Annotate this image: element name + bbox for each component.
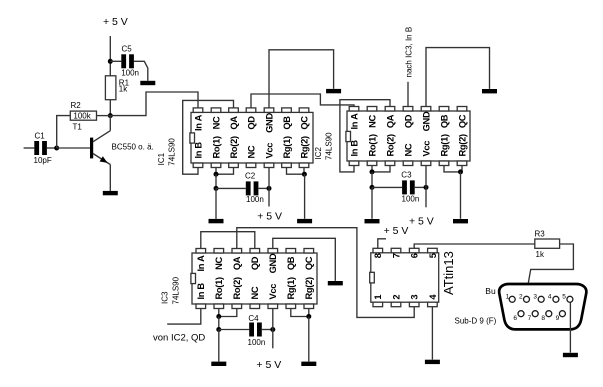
wire IC3 Ro junction down to C4 node bbox=[218, 317, 220, 330]
wire C5 right plate to ground bbox=[134, 61, 148, 80]
wire IC3 QA to ATtiny13 pin3 bbox=[237, 228, 414, 318]
node IC2 Rg junction bbox=[458, 169, 463, 174]
svg-text:2: 2 bbox=[391, 295, 401, 300]
svg-text:6: 6 bbox=[410, 253, 420, 258]
svg-text:+ 5 V: + 5 V bbox=[103, 16, 128, 28]
svg-text:In A: In A bbox=[193, 114, 203, 131]
wire IC1 QD to IC2 In A bbox=[251, 94, 354, 108]
node IC1 Ro junction bbox=[214, 172, 219, 177]
wire IC3 Rg junction to ground bbox=[308, 317, 310, 362]
svg-text:R2: R2 bbox=[71, 101, 82, 110]
IC1 top pins row bbox=[193, 108, 309, 113]
resistor R3 1k body bbox=[535, 239, 560, 248]
ground emitter T1 bbox=[103, 191, 118, 195]
svg-text:1k: 1k bbox=[119, 84, 128, 93]
svg-text:Rg(1): Rg(1) bbox=[439, 134, 449, 156]
svg-text:+ 5 V: + 5 V bbox=[384, 225, 409, 237]
ground Sub-D pin5 bbox=[563, 353, 578, 357]
svg-text:+ 5 V: + 5 V bbox=[409, 216, 434, 228]
wire collector diagonal up bbox=[109, 116, 111, 131]
capacitor C4 100n plates bbox=[249, 323, 262, 337]
svg-text:QB: QB bbox=[282, 116, 292, 130]
svg-text:NC: NC bbox=[214, 257, 224, 270]
svg-text:4: 4 bbox=[548, 293, 552, 300]
wire R2 right to collector node bbox=[97, 115, 111, 117]
svg-text:C1: C1 bbox=[35, 132, 46, 141]
node junction +5V / C5 bbox=[108, 59, 113, 64]
IC1 pin1 notch bbox=[190, 133, 195, 143]
svg-text:NC: NC bbox=[250, 286, 260, 299]
svg-text:In A: In A bbox=[349, 113, 359, 130]
op-amp IC3 74LS90 body bbox=[192, 253, 317, 304]
wire base node up to R2 bbox=[57, 116, 71, 148]
ATtiny13 bottom pin numbers 1 2 3 4 bbox=[373, 294, 438, 300]
svg-text:In B: In B bbox=[193, 142, 203, 159]
svg-text:9: 9 bbox=[556, 315, 560, 322]
svg-text:Bu: Bu bbox=[485, 286, 496, 296]
node base junction dot bbox=[54, 146, 59, 151]
wire base node to transistor base bbox=[57, 147, 91, 149]
svg-text:NC: NC bbox=[211, 116, 221, 129]
svg-text:100k: 100k bbox=[73, 112, 91, 121]
svg-text:Ro(1): Ro(1) bbox=[367, 134, 377, 156]
svg-text:QD: QD bbox=[403, 114, 413, 128]
node IC3 Rg junction bbox=[306, 314, 311, 319]
svg-text:+ 5 V: + 5 V bbox=[256, 359, 281, 371]
wire C3 right to Vcc node bbox=[415, 186, 426, 188]
svg-text:1: 1 bbox=[506, 293, 510, 300]
wire IC1 Rg(1) to Rg(2) bbox=[287, 168, 305, 175]
node IC1 Vcc junction bbox=[267, 186, 272, 191]
node IC3 Ro junction bbox=[216, 314, 221, 319]
svg-text:BC550 o. ä.: BC550 o. ä. bbox=[112, 143, 154, 152]
wire ATtiny13 pin8 to +5V bbox=[378, 239, 386, 249]
wire IC3 In B stub von IC2 bbox=[167, 309, 201, 325]
svg-text:Rg(1): Rg(1) bbox=[286, 277, 296, 299]
wire IC3 Ro(1) down bbox=[218, 309, 220, 317]
IC2 bottom pin labels bbox=[349, 134, 467, 156]
IC3 top pins row bbox=[196, 249, 314, 254]
svg-text:ATtin13: ATtin13 bbox=[441, 251, 456, 295]
ground IC1 GND bbox=[326, 89, 341, 93]
IC3 bottom pin labels bbox=[196, 277, 314, 299]
wire IC1 Ro(1) down bbox=[215, 168, 217, 175]
node IC2 C3 left junction bbox=[370, 185, 375, 190]
wire IC1 GND to ground bbox=[269, 50, 334, 108]
svg-text:QC: QC bbox=[299, 116, 309, 130]
svg-text:QB: QB bbox=[286, 256, 296, 270]
wire IC2 Rg(1) to Rg(2) bbox=[444, 166, 461, 172]
ground IC1 Rg bbox=[297, 219, 312, 223]
wire ATtiny13 pin6 to R3 bbox=[414, 244, 535, 248]
svg-text:Vcc: Vcc bbox=[421, 141, 431, 157]
wire IC2 Rg(2) down bbox=[461, 166, 463, 172]
capacitor C3 100n plates bbox=[402, 180, 415, 194]
node IC1 C2 left junction bbox=[214, 186, 219, 191]
ground IC2 GND bbox=[482, 89, 497, 93]
svg-text:6: 6 bbox=[513, 315, 517, 322]
svg-text:QC: QC bbox=[457, 114, 467, 128]
svg-text:NC: NC bbox=[367, 115, 377, 128]
wire IC1 C2 node to ground bbox=[215, 188, 217, 218]
svg-text:10pF: 10pF bbox=[34, 156, 52, 165]
wire IC2 C3 node to ground bbox=[371, 187, 373, 218]
wire IC3 C4 node to ground bbox=[218, 330, 220, 362]
ATtiny13 pin1 notch bbox=[370, 272, 375, 283]
wire C2 right to Vcc node bbox=[258, 187, 269, 189]
wire C3 left bbox=[372, 186, 402, 188]
ATtiny13 top pin numbers 8 7 6 5 bbox=[373, 253, 438, 258]
svg-text:7: 7 bbox=[528, 315, 532, 322]
svg-text:Ro(2): Ro(2) bbox=[229, 136, 239, 158]
svg-text:QA: QA bbox=[229, 116, 239, 130]
svg-text:5: 5 bbox=[428, 253, 438, 258]
ground IC2 C3 bbox=[365, 219, 380, 223]
ground IC2 Rg bbox=[453, 219, 468, 223]
node IC2 Vcc junction bbox=[424, 185, 429, 190]
svg-text:QC: QC bbox=[304, 256, 314, 270]
svg-text:Sub-D 9 (F): Sub-D 9 (F) bbox=[455, 317, 497, 326]
svg-text:Rg(1): Rg(1) bbox=[282, 136, 292, 158]
svg-text:QB: QB bbox=[439, 114, 449, 128]
IC2 top pin labels bbox=[349, 111, 467, 131]
svg-text:T1: T1 bbox=[73, 123, 83, 132]
svg-text:1k: 1k bbox=[536, 250, 545, 259]
node collector junction bbox=[108, 113, 113, 118]
node IC3 C4 left junction bbox=[216, 327, 221, 332]
wire IC3 QD to In A link bbox=[201, 232, 255, 249]
svg-text:IC3: IC3 bbox=[161, 291, 170, 304]
svg-text:74LS90: 74LS90 bbox=[324, 132, 333, 160]
svg-text:GND: GND bbox=[421, 111, 431, 131]
svg-text:In B: In B bbox=[349, 140, 359, 157]
wire IC1 Vcc to +5V stub bbox=[268, 168, 270, 207]
wire IC2 GND to ground bbox=[426, 48, 490, 107]
wire IC2 Vcc to +5V stub bbox=[425, 166, 427, 208]
svg-text:Vcc: Vcc bbox=[264, 143, 274, 159]
wire IC1 Rg junction to ground bbox=[304, 174, 306, 219]
svg-text:von IC2, QD: von IC2, QD bbox=[153, 332, 205, 343]
wire IC3 Rg(2) down bbox=[308, 309, 310, 317]
IC2 bottom pins row bbox=[349, 161, 467, 166]
svg-text:100n: 100n bbox=[402, 194, 420, 203]
svg-text:74LS90: 74LS90 bbox=[172, 276, 181, 304]
svg-text:8: 8 bbox=[373, 253, 383, 258]
svg-text:nach IC3, In B: nach IC3, In B bbox=[405, 27, 414, 78]
svg-text:7: 7 bbox=[391, 253, 401, 258]
svg-text:NC: NC bbox=[246, 145, 256, 158]
Sub-D bottom row sockets 6-9 bbox=[518, 311, 565, 317]
wire IC1 QA to In B feedback loop bbox=[183, 100, 234, 174]
node IC3 Vcc junction bbox=[270, 327, 275, 332]
ATtiny13 top pins row bbox=[373, 248, 437, 253]
svg-text:Vcc: Vcc bbox=[268, 284, 278, 300]
svg-text:In A: In A bbox=[196, 255, 206, 272]
svg-text:3: 3 bbox=[410, 295, 420, 300]
IC1 bottom pins row bbox=[193, 163, 309, 168]
node IC2 Ro junction bbox=[370, 169, 375, 174]
ground ATtiny13 pin4 bbox=[425, 360, 440, 364]
Sub-D pin number labels bottom bbox=[513, 315, 559, 322]
wire IC2 QD stub nach IC3 bbox=[407, 82, 409, 107]
svg-text:NC: NC bbox=[403, 143, 413, 156]
wire C2 left bbox=[216, 187, 246, 189]
ATtiny13 bottom pins row bbox=[373, 302, 437, 307]
wire emitter down to ground bbox=[109, 165, 111, 191]
svg-text:Ro(2): Ro(2) bbox=[385, 134, 395, 156]
capacitor C2 100n plates bbox=[246, 181, 259, 195]
svg-text:Ro(1): Ro(1) bbox=[214, 277, 224, 299]
svg-text:74LS90: 74LS90 bbox=[167, 138, 176, 166]
resistor R1 1k body bbox=[105, 76, 116, 100]
IC3 bottom pins row bbox=[196, 304, 314, 309]
IC2 top pins row bbox=[349, 107, 467, 112]
svg-text:1: 1 bbox=[373, 295, 383, 300]
wire collector node to IC1 In A bbox=[110, 92, 198, 116]
wire IC2 Rg junction to ground bbox=[460, 172, 462, 219]
svg-text:In B: In B bbox=[196, 283, 206, 300]
IC1 top pin labels bbox=[193, 113, 309, 133]
wire IC3 GND to ground bbox=[273, 238, 336, 281]
ground IC3 C4 bbox=[211, 362, 226, 366]
capacitor C5 100n plates bbox=[121, 54, 134, 68]
wire IC2 Ro(2) to Ro(1) bbox=[372, 166, 390, 172]
ground C5 bbox=[140, 81, 155, 85]
node IC1 Rg junction bbox=[302, 172, 307, 177]
svg-text:Ro(1): Ro(1) bbox=[211, 136, 221, 158]
svg-text:Ro(2): Ro(2) bbox=[232, 277, 242, 299]
svg-text:+ 5 V: + 5 V bbox=[257, 211, 282, 223]
Sub-D pin number labels top bbox=[506, 293, 567, 300]
wire R1 bottom to collector node bbox=[109, 100, 111, 116]
wire R3 to Sub-D pin2 bbox=[526, 244, 573, 296]
svg-text:C3: C3 bbox=[401, 171, 412, 180]
wire IC1 Ro(2) to Ro(1) bbox=[216, 168, 234, 175]
wire IC3 Vcc to +5V stub bbox=[272, 309, 274, 349]
svg-text:100n: 100n bbox=[246, 195, 264, 204]
svg-text:C4: C4 bbox=[248, 314, 259, 323]
Sub-D top row sockets 1-5 bbox=[509, 296, 573, 302]
ground IC3 GND bbox=[328, 281, 343, 285]
svg-text:GND: GND bbox=[268, 253, 278, 273]
wire ATtiny13 pin4 to ground bbox=[431, 307, 433, 360]
wire IC2 Ro(1) down bbox=[371, 166, 373, 172]
wire +5V node to C5 left plate bbox=[110, 60, 121, 62]
transistor Q1 T1 BC550 bbox=[90, 131, 110, 165]
svg-text:IC2: IC2 bbox=[314, 147, 323, 160]
svg-text:QA: QA bbox=[232, 256, 242, 270]
mcu U1 ATtiny13 body bbox=[371, 253, 439, 302]
IC2 pin1 notch bbox=[346, 131, 351, 141]
svg-text:C5: C5 bbox=[122, 45, 133, 54]
wire IC2 Ro junction down to C3 node bbox=[371, 172, 373, 188]
svg-text:GND: GND bbox=[264, 113, 274, 133]
svg-text:QD: QD bbox=[250, 256, 260, 270]
connector J1 Sub-D 9 outline bbox=[499, 284, 586, 329]
svg-text:QA: QA bbox=[385, 114, 395, 128]
svg-text:Rg(2): Rg(2) bbox=[304, 277, 314, 299]
wire IC1 Ro junction down to C2 node bbox=[215, 174, 217, 188]
svg-text:100n: 100n bbox=[248, 338, 266, 347]
capacitor C1 10pF input coupling bbox=[24, 141, 57, 155]
svg-text:R3: R3 bbox=[535, 230, 546, 239]
resistor R2 100k body bbox=[70, 111, 96, 120]
svg-text:Rg(2): Rg(2) bbox=[299, 136, 309, 158]
IC3 top pin labels bbox=[196, 253, 314, 273]
ground IC3 Rg bbox=[301, 362, 316, 366]
op-amp IC2 74LS90 body bbox=[347, 111, 470, 161]
svg-text:3: 3 bbox=[533, 293, 537, 300]
IC3 pin1 notch bbox=[191, 273, 196, 283]
svg-text:C2: C2 bbox=[245, 172, 256, 181]
wire Sub-D pin5 to ground bbox=[569, 302, 571, 352]
svg-text:8: 8 bbox=[541, 315, 545, 322]
IC1 bottom pin labels bbox=[193, 136, 309, 158]
wire IC2 QA to In B feedback loop bbox=[340, 100, 390, 172]
ground IC1 C2 bbox=[209, 219, 224, 223]
op-amp IC1 74LS90 body bbox=[191, 112, 313, 163]
svg-text:Rg(2): Rg(2) bbox=[457, 134, 467, 156]
wire IC3 Ro(2) to Ro(1) bbox=[219, 309, 237, 317]
svg-text:QD: QD bbox=[246, 116, 256, 130]
wire IC3 Rg(1) to Rg(2) bbox=[291, 309, 309, 317]
svg-text:2: 2 bbox=[519, 293, 523, 300]
svg-text:IC1: IC1 bbox=[157, 152, 166, 165]
wire C4 right to Vcc node bbox=[262, 329, 273, 331]
wire C4 left bbox=[219, 329, 249, 331]
wire +5V vertical feed to R1 bbox=[109, 36, 111, 76]
svg-text:100n: 100n bbox=[121, 68, 139, 77]
wire IC1 Rg(2) down bbox=[303, 168, 305, 175]
svg-text:5: 5 bbox=[562, 293, 566, 300]
